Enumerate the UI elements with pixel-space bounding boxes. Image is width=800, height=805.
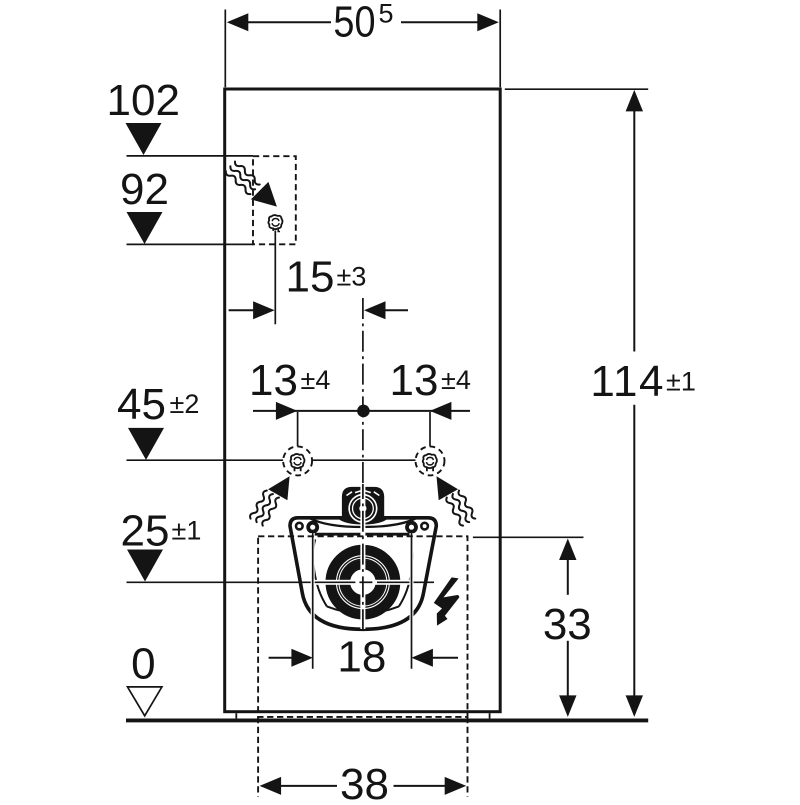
- dim 33 line lower: [567, 641, 569, 696]
- lightning bolt: [434, 577, 460, 625]
- svg-text:13: 13: [390, 356, 439, 405]
- mounting plate line: [313, 533, 412, 536]
- svg-text:18: 18: [337, 632, 386, 681]
- dim 38 left tail: [281, 785, 337, 787]
- bolt circle small left: [296, 523, 303, 530]
- dim 15 arrow right-pointing: [253, 301, 275, 319]
- ref line y=244: [127, 243, 254, 245]
- dim 50 arrow left: [227, 13, 249, 31]
- svg-text:5: 5: [379, 0, 394, 29]
- horizontal centerline y=582 seg a: [127, 581, 356, 583]
- extension line left (x=225): [224, 10, 226, 88]
- extension line y=89 right: [505, 88, 648, 90]
- tap leader left: [297, 412, 299, 446]
- bowl curve left: [313, 539, 327, 606]
- dashed extension right for 38: [467, 717, 469, 797]
- grommet highlight marks: [347, 491, 380, 496]
- squiggles bottom right: [459, 491, 476, 519]
- ref line y=460 segment b: [312, 459, 416, 461]
- dim 13 arrow left (right-pointing): [276, 402, 298, 420]
- dim 13 line: [253, 410, 470, 412]
- triangle 92: [127, 212, 163, 244]
- top tap icon: [268, 215, 282, 229]
- bolt leader line left: [312, 533, 314, 669]
- bolt leader halo left: [311, 533, 315, 669]
- svg-text:92: 92: [120, 165, 169, 214]
- bowl curve right: [399, 539, 413, 606]
- svg-text:13: 13: [249, 356, 298, 405]
- dim 38 right tail: [394, 785, 446, 787]
- dim 38 arrow right (right-pointing): [445, 777, 467, 795]
- dim 50 arrow right: [477, 13, 499, 31]
- svg-text:25: 25: [121, 506, 170, 555]
- arrow bottom left: [268, 476, 290, 500]
- top water arrow: [251, 182, 277, 207]
- dim 18 arrow right (left-pointing): [411, 649, 433, 667]
- panel foot left: [235, 713, 237, 718]
- dim 15 left tail: [229, 309, 254, 311]
- extension line right (x=500): [499, 10, 501, 88]
- bolt leader line right: [411, 533, 413, 669]
- svg-text:±4: ±4: [301, 365, 331, 395]
- dim 33 line upper: [567, 559, 569, 595]
- open triangle 0: [128, 687, 162, 716]
- drain thin ring a: [338, 557, 388, 607]
- drain inner ring: [345, 565, 380, 600]
- svg-text:38: 38: [340, 760, 389, 800]
- floor line: [126, 718, 648, 722]
- bolt leader halo right: [410, 533, 414, 669]
- ref line y=156: [127, 155, 254, 157]
- white halo vertical centerline: [360, 484, 365, 629]
- bolt ring right: [407, 523, 416, 532]
- svg-text:102: 102: [106, 76, 179, 125]
- dim 114 line lower: [633, 405, 635, 696]
- white halo horizontal centerline: [306, 580, 420, 585]
- horizontal centerline y=582 seg c: [377, 581, 434, 583]
- monolith panel outline: [225, 89, 501, 712]
- tap circle right dashed: [416, 446, 445, 475]
- bolt circle small right: [421, 523, 428, 530]
- drain thin ring b: [340, 559, 386, 605]
- triangle 25: [127, 550, 163, 582]
- extension line y=537: [473, 536, 584, 538]
- triangle 45: [128, 428, 164, 460]
- dashed extension left for 38: [257, 717, 259, 797]
- panel foot right: [489, 713, 491, 718]
- grommet rings: [348, 494, 377, 523]
- top water squiggles: [235, 162, 260, 185]
- svg-text:±3: ±3: [337, 262, 367, 292]
- arrow bottom right: [437, 476, 459, 500]
- svg-text:±2: ±2: [170, 389, 200, 419]
- svg-text:0: 0: [131, 640, 155, 689]
- tap leader right: [429, 412, 431, 446]
- dim 18 arrow left (right-pointing): [291, 649, 313, 667]
- svg-text:±1: ±1: [172, 516, 202, 546]
- ceramic housing body: [290, 518, 436, 630]
- dim 33 arrow down: [559, 695, 576, 717]
- dim 114 arrow up: [626, 90, 643, 112]
- svg-text:45: 45: [117, 380, 166, 429]
- grommet housing blob: [339, 487, 388, 525]
- dim 18 right tail: [433, 657, 459, 659]
- dim 50 line left tail: [248, 21, 332, 23]
- bowl bottom arc: [327, 606, 399, 613]
- dim 33 arrow up: [559, 539, 576, 561]
- dashed rect monolith service area: [258, 536, 467, 717]
- svg-text:50: 50: [333, 0, 375, 46]
- dim 114 arrow down: [626, 695, 643, 717]
- tap circle left dashed: [283, 446, 312, 475]
- bolt ring left: [308, 523, 317, 532]
- horizontal centerline y=582 seg b: [359, 581, 372, 583]
- dim 18 left tail: [269, 657, 292, 659]
- svg-text:±1: ±1: [666, 367, 696, 397]
- svg-text:114: 114: [590, 357, 665, 406]
- dim 15 right tail: [385, 309, 408, 311]
- dim 114 line upper: [633, 110, 635, 352]
- dim 15 arrow left-pointing: [364, 301, 386, 319]
- drain outer ring: [331, 550, 395, 614]
- dim 38 arrow left (left-pointing): [260, 777, 282, 795]
- vertical centerline dash-dot: [362, 298, 364, 630]
- squiggles bottom left: [250, 491, 267, 519]
- dim 50 line right tail: [401, 21, 478, 23]
- water pipe line x=275: [274, 231, 276, 325]
- dashed box water supply detail: [253, 156, 296, 244]
- ref line y=460 segment a: [127, 459, 284, 461]
- dim 13 center dot: [357, 405, 370, 418]
- triangle 102: [126, 123, 162, 155]
- vertical centerline over body: [362, 484, 364, 630]
- svg-text:±4: ±4: [441, 365, 471, 395]
- collar arc below grommet: [309, 518, 417, 527]
- svg-text:15: 15: [286, 252, 335, 301]
- dim 13 arrow right (left-pointing): [430, 402, 452, 420]
